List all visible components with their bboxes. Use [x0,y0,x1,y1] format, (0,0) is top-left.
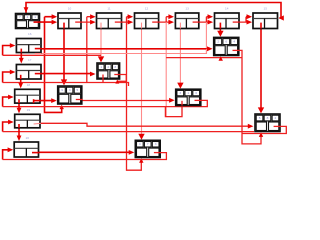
svg-text:2: 2 [107,65,109,69]
wire stub inside box3 cells [101,22,122,28]
wire stub inside row5L cells [19,123,41,128]
svg-text:7: 7 [19,15,21,19]
wire stub inside row2L cells [21,49,42,54]
wire next-pointer box1 to box2 [34,17,53,22]
wire y57.6 branch to box15 bottom [166,57,242,59]
wire stub inside box1 next cell [34,21,41,23]
arrowhead upper into box7 left [247,14,253,19]
wire box2 child down to box14 [61,23,67,86]
wire box13 self loop [114,75,126,84]
node box17 (lower right record) [255,114,280,132]
arrowhead into row2L left [10,43,16,48]
wire box15 loop down to box17 bottom (long) [233,50,264,143]
wire left bracket into row5L [3,122,10,132]
wire pink line y53.5 up into box15 arrow [41,49,207,54]
svg-text:3: 3 [179,91,181,95]
wire stub inside box15 loop cell [233,49,240,51]
arrowhead upper into box6 left [208,14,214,19]
node top-row box4 [135,6,159,28]
svg-text:4: 4 [233,39,235,43]
arrowhead into box1 top [24,7,29,13]
svg-text:13: 13 [185,6,189,10]
wire box6 child down to box15 [217,23,223,37]
wire box14 next to box16 [76,98,175,103]
wire row4L next to box14 [34,98,57,103]
svg-text:10: 10 [68,6,72,10]
svg-text:6: 6 [195,91,197,95]
svg-text:6: 6 [225,39,227,43]
wire row3L next to box13 [35,72,96,77]
svg-text:1: 1 [100,65,102,69]
wire left bracket into row6L [3,150,9,160]
svg-text:16: 16 [28,32,32,36]
wire stub inside row6L cells [32,152,39,154]
wire row2L next to box15 [35,46,213,51]
svg-text:19: 19 [27,108,31,112]
wire box3 jog down under to box18 bottom [127,22,144,170]
wire top bus from box1 loop to box7 [26,3,281,19]
svg-text:1: 1 [34,15,36,19]
wire box17 loop right [242,126,286,133]
arrowhead upper into box5 left [168,14,174,19]
wire left bracket into row2L [3,46,11,56]
wire stub inside box6 cells [220,22,240,28]
wire row5L next to box17 (long) [34,123,254,128]
wire next-pointer box6 to box7 [233,17,248,22]
wire stub inside box2 cells [64,22,82,28]
node left-column box row5L [15,108,40,128]
wire stub inside box17 loop cell [274,125,281,127]
wire next-pointer box4 to box5 [152,17,169,22]
svg-text:7: 7 [147,142,149,146]
svg-text:17: 17 [28,58,32,62]
wire box3 child down to box13 [98,23,104,63]
svg-text:8: 8 [267,116,269,120]
node left-column box row2L [16,32,41,52]
node top-row box2 [58,6,81,28]
node box16 (middle right record) [176,89,201,105]
svg-text:14: 14 [225,6,229,10]
wire stub inside box14 next cell [76,99,83,101]
arrowhead lower into box3 left [90,20,96,25]
wire row4L child down [17,99,22,113]
svg-text:11: 11 [107,6,110,10]
wire stub inside box18 loop cell [154,152,161,154]
node box14 (left middle record) [58,86,82,104]
node top-row box6 [215,6,240,28]
wire next-pointer box2 to box3 [75,17,91,22]
svg-text:5: 5 [259,116,261,120]
node left-column box row3L [16,58,41,79]
wire return line y106.6 from box16 loop [3,100,208,106]
arrow up into box15 bottom [219,56,223,61]
arrowhead into row3L left [10,70,16,75]
svg-text:5: 5 [77,88,79,92]
wire box5 child down to box16 (long) [177,23,183,89]
node top-row box7 [253,6,278,28]
wire stub inside box16 cells [182,100,202,105]
arrowhead lower into box5 left [168,20,174,25]
svg-text:12: 12 [145,6,149,10]
wire left bracket into row4L [3,97,10,107]
arrowhead lower into box7 left [247,20,253,25]
wire box1 jog down to box14 bottom [45,22,64,112]
node top-row box3 [97,6,122,28]
wire row6L next to box18 [32,150,134,155]
node box1 (record with 3 top cells) [16,14,40,29]
wire return line y131.6 [3,131,254,133]
wire stub inside row3L cells [21,74,42,79]
node box15 (below box6) [214,37,239,55]
wire stub inside box13 cells [103,75,121,80]
node left-column box row6L [14,136,38,157]
wire row2L child down [19,49,24,64]
svg-text:2: 2 [275,116,277,120]
arrowhead upper into box4 left [128,14,134,19]
svg-text:20: 20 [26,136,30,140]
svg-text:4: 4 [27,15,29,19]
svg-text:3: 3 [155,142,157,146]
node top-row box5 [175,6,198,28]
wire return line y159.5 from box18 loop [3,153,167,160]
wire return line y82.5 from box13 parent cell [3,75,129,87]
wire left bracket into row3L [3,72,11,83]
svg-text:4: 4 [139,142,141,146]
arrowhead lower into box4 left [128,20,134,25]
svg-text:3: 3 [69,88,71,92]
node box13 (below box3) [97,63,120,79]
arrowhead lower into box6 left [208,20,214,25]
arrowhead upper into box2 left [52,14,58,19]
svg-text:1: 1 [187,91,189,95]
node left-column box row4L [15,83,40,103]
wire stub inside box4 cells [142,22,160,28]
arrowhead into box7 right side [279,15,284,20]
arrowhead into row4L left [8,95,14,100]
wire box4 child down to box18 (long) [138,23,144,140]
svg-text:2: 2 [217,39,219,43]
wire box16 parent lower U [165,101,182,117]
wire stub inside box5 cells [180,22,199,28]
wire return line y55.3 to box13 top feed [3,54,101,56]
svg-text:9: 9 [61,88,63,92]
svg-text:8: 8 [115,65,117,69]
svg-text:18: 18 [27,83,31,87]
wire box2 jog down to return line [86,22,88,82]
svg-text:15: 15 [264,6,268,10]
node box18 (bottom middle record) [135,140,160,157]
wire row5L child down [17,124,22,141]
wire box5 jog down to box15 left arrow [205,22,207,53]
wire stub inside row4L cells [19,99,41,103]
arrowhead into row5L left [8,120,14,125]
arrowhead into row6L left [8,147,14,152]
wire stub inside box7 child cell [260,23,262,29]
wire next-pointer box3 to box4 [115,17,129,22]
wire box7 child down to box17 (long) [258,23,264,114]
wire row3L child down [18,75,23,89]
arrowhead lower into box2 left [52,20,58,25]
arrowhead upper into box3 left [90,14,96,19]
wire next-pointer box5 to box6 [193,17,209,22]
wire box4 jog down long to box16 parent U [166,22,182,117]
